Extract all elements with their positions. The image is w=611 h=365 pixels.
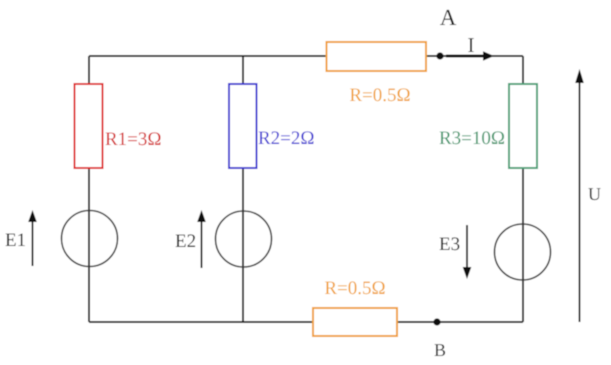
svg-text:E3: E3 <box>439 234 460 255</box>
svg-text:R3=10Ω: R3=10Ω <box>439 128 505 149</box>
svg-text:E1: E1 <box>5 230 26 251</box>
svg-text:R=0.5Ω: R=0.5Ω <box>349 85 410 106</box>
svg-text:R1=3Ω: R1=3Ω <box>105 129 162 150</box>
svg-text:I: I <box>468 33 475 57</box>
svg-text:A: A <box>440 5 457 30</box>
svg-text:R2=2Ω: R2=2Ω <box>258 128 315 149</box>
svg-text:B: B <box>434 340 446 360</box>
svg-text:E2: E2 <box>175 231 196 252</box>
svg-text:R=0.5Ω: R=0.5Ω <box>324 278 385 299</box>
svg-text:U: U <box>588 184 601 204</box>
